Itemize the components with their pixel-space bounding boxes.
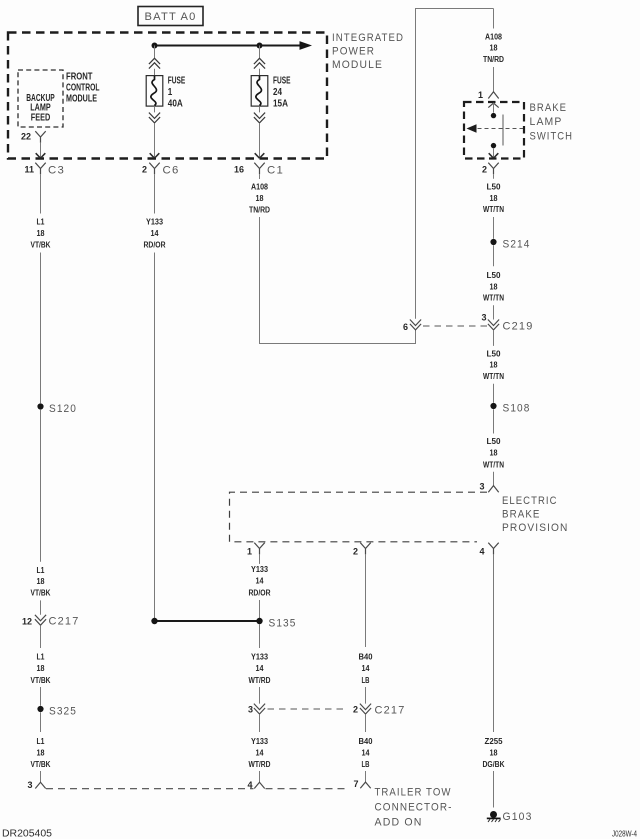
svg-text:L50: L50 [487,349,502,358]
svg-text:TN/RD: TN/RD [483,55,504,64]
svg-text:L1: L1 [37,737,45,746]
svg-text:18: 18 [37,577,45,586]
svg-text:16: 16 [234,165,244,175]
connector C217 pin 2 (right half) [353,704,406,717]
svg-text:2: 2 [353,547,358,557]
svg-text:WT/RD: WT/RD [249,676,271,685]
wire: S135 down [259,624,261,648]
wire: C217 left down [259,714,261,732]
wire label L50 18 WT/TN (block 3) [483,349,504,381]
svg-text:VT/BK: VT/BK [31,589,51,598]
svg-text:B40: B40 [359,652,374,661]
svg-text:Y133: Y133 [251,565,268,574]
svg-text:L50: L50 [487,271,502,280]
svg-text:CONTROL: CONTROL [66,83,100,94]
splice S325 [37,705,77,717]
svg-text:BRAKE: BRAKE [530,102,568,114]
svg-text:12: 12 [22,616,32,626]
wire: down to S214 [493,217,495,239]
svg-text:3: 3 [481,312,486,322]
backup lamp feed box [18,70,63,127]
junction: bus to fuse 24 [257,43,263,49]
connector C6 pin 2 [142,163,180,177]
svg-text:WT/TN: WT/TN [483,372,504,381]
svg-text:18: 18 [37,229,45,238]
wire: down to C217 pin 3 [259,687,261,704]
svg-text:A108: A108 [251,182,268,191]
dashed trailer tow connector line [46,788,347,790]
svg-text:18: 18 [256,194,264,203]
svg-text:FUSE: FUSE [273,76,291,87]
wire: Y133 long run down to S135 [154,253,156,619]
wire: pin 2 down [365,554,367,647]
svg-text:G103: G103 [503,811,533,823]
svg-text:C217: C217 [49,616,80,628]
svg-text:WT/TN: WT/TN [483,460,504,469]
svg-text:6: 6 [403,322,408,332]
svg-text:VT/BK: VT/BK [31,676,51,685]
svg-text:S214: S214 [503,238,531,250]
wire: S120 down [40,410,42,562]
wire label L1 18 VT/BK (mid left) [31,566,51,598]
svg-text:18: 18 [490,44,498,53]
wire label B40 14 LB (above C217) [359,652,374,684]
wire: backup lamp feed to C3 [36,143,46,158]
wire label L1 18 VT/BK (upper left) [31,217,51,249]
svg-text:11: 11 [24,165,34,175]
svg-text:14: 14 [362,664,370,673]
svg-text:CONNECTOR-: CONNECTOR- [375,802,453,814]
svg-text:BRAKE: BRAKE [502,509,541,521]
svg-text:Y133: Y133 [251,737,268,746]
svg-text:L50: L50 [487,437,502,446]
wire label L1 18 VT/BK (lower left) [31,652,51,684]
svg-text:Y133: Y133 [146,217,163,226]
svg-text:Y133: Y133 [251,652,268,661]
svg-text:FEED: FEED [31,112,51,123]
svg-text:4: 4 [479,547,484,557]
svg-text:18: 18 [490,748,498,757]
svg-text:FRONT: FRONT [66,72,93,83]
fuse F1 40A [146,46,185,159]
svg-text:3: 3 [248,705,253,715]
trailer tow connector label [375,787,453,829]
wire: down to S108 [493,384,495,403]
wire: L1 down to S120 [40,253,42,404]
wire: down to S325 [40,687,42,706]
svg-text:2: 2 [482,165,487,175]
wire label Z255 18 DG/BK [483,737,505,769]
svg-text:L1: L1 [37,217,45,226]
wire label L1 18 VT/BK (bottom left) [31,737,51,769]
svg-text:MODULE: MODULE [66,94,97,105]
svg-text:WT/RD: WT/RD [249,760,271,769]
integrated power module label [332,32,404,71]
svg-text:POWER: POWER [332,45,375,57]
svg-text:18: 18 [490,361,498,370]
wire label Y133 14 RD/OR (upper) [144,217,166,249]
svg-text:18: 18 [490,194,498,203]
svg-text:S325: S325 [49,705,77,717]
svg-text:18: 18 [37,664,45,673]
svg-text:B40: B40 [359,737,374,746]
wire label A108 18 TN/RD (below C1) [249,182,270,214]
svg-text:18: 18 [490,449,498,458]
brake lamp switch pin 1 [478,90,499,100]
wire: down to C217 [40,600,42,614]
wire label Y133 14 WT/RD (above C217) [249,652,271,684]
footer sheet number J028W-4 [612,829,637,839]
front control module label [66,72,100,105]
svg-text:LAMP: LAMP [530,116,563,128]
connector C3 pin 11 [24,163,65,177]
connector C217 pin 3 (left half) [248,704,265,715]
wire: A108 down to corner [259,217,261,344]
wire: C6 pin 2 down [154,174,156,213]
wire: S214 down [493,245,495,266]
svg-text:VT/BK: VT/BK [31,240,51,249]
wire: A108 vertical riser [415,9,417,345]
svg-text:14: 14 [256,577,264,586]
svg-text:MODULE: MODULE [332,59,383,71]
svg-text:2: 2 [353,705,358,715]
trailer tow connector pin 3 [27,780,45,790]
svg-text:C3: C3 [48,164,65,176]
wire label Y133 14 RD/OR (below pin 1) [249,565,271,598]
brake lamp switch internals [467,103,524,158]
svg-text:RD/OR: RD/OR [144,240,166,249]
svg-text:J028W-4: J028W-4 [612,829,637,839]
footer plate number DR205405 [2,829,52,839]
svg-text:TRAILER TOW: TRAILER TOW [375,787,452,799]
wire: pin 1 down [259,554,261,564]
svg-text:VT/BK: VT/BK [31,760,51,769]
svg-text:ELECTRIC: ELECTRIC [502,495,558,507]
trailer tow connector pin 7 [353,779,370,789]
svg-text:L1: L1 [37,652,45,661]
splice S214 [490,238,530,250]
svg-text:24: 24 [273,87,282,98]
brake lamp switch pin 2 [482,163,499,175]
integrated power module box [8,33,327,159]
svg-text:2: 2 [142,165,147,175]
svg-text:WT/TN: WT/TN [483,294,504,303]
splice S108 [490,402,530,414]
connector pin 22 (front control module) [21,131,46,143]
splice S120 [37,403,77,415]
svg-text:3: 3 [479,482,484,492]
trailer tow connector pin 4 [247,780,264,790]
svg-text:1: 1 [478,90,483,100]
wire: pin 4 down to Z255 [493,554,495,732]
wire label Y133 14 WT/RD (bottom) [249,737,271,769]
svg-text:15A: 15A [273,99,288,110]
wire: S325 down [40,712,42,732]
svg-text:S108: S108 [503,402,531,414]
svg-text:18: 18 [37,748,45,757]
wire: C1 pin 16 down [259,174,261,179]
svg-text:14: 14 [256,748,264,757]
dashed link to C219 [423,325,487,327]
svg-text:WT/TN: WT/TN [483,205,504,214]
battery feed label BATT A0 [138,7,203,26]
fuse F24 15A [251,46,291,159]
svg-text:14: 14 [362,748,370,757]
wire label B40 14 LB (bottom) [359,737,374,769]
wire: battery bus [155,41,313,50]
ground G103 [487,811,533,823]
svg-text:S135: S135 [269,617,297,629]
svg-text:C1: C1 [267,164,284,176]
wire: down to trailer tow pin 3 [40,771,42,782]
wire: switch pin 2 down [493,174,495,179]
svg-text:40A: 40A [168,99,183,110]
svg-text:C217: C217 [375,705,406,717]
svg-text:LB: LB [362,760,370,769]
svg-text:C6: C6 [163,164,180,176]
svg-text:FUSE: FUSE [168,76,186,87]
connector C219 pin 3 [481,312,533,332]
svg-text:3: 3 [27,780,32,790]
svg-text:DR205405: DR205405 [2,829,52,839]
svg-text:S120: S120 [49,403,77,415]
electric brake provision pin 3 [479,482,498,493]
svg-text:7: 7 [353,779,358,789]
wire: down to C219 [493,305,495,319]
svg-text:18: 18 [490,283,498,292]
brake lamp switch label [530,102,574,142]
wire label L50 18 WT/TN (block 1) [483,182,504,214]
svg-text:C219: C219 [503,321,534,333]
svg-text:LB: LB [362,676,370,685]
connector half 6 (to C219) [403,320,421,333]
wire: down to trailer tow pin 4 [259,771,261,782]
svg-text:L50: L50 [487,182,502,191]
wire: down to electric brake provision pin 3 [493,472,495,485]
junction: bus to fuse 1 [152,43,158,49]
wire label L50 18 WT/TN (block 4) [483,437,504,470]
electric brake provision box [230,492,488,542]
electric brake provision pin 4 [479,543,498,557]
svg-text:L1: L1 [37,566,45,575]
svg-text:1: 1 [247,547,252,557]
wire: down to brake lamp switch [493,9,495,29]
wire label L50 18 WT/TN (block 2) [483,271,504,303]
svg-text:TN/RD: TN/RD [249,205,270,214]
svg-text:DG/BK: DG/BK [483,760,505,769]
wire: S108 down [493,409,495,433]
wire: down to ground [493,771,495,808]
wire: C3 pin 11 down [40,174,42,213]
wire: down to trailer tow pin 7 [365,771,367,782]
svg-text:INTEGRATED: INTEGRATED [332,32,404,44]
svg-text:14: 14 [256,664,264,673]
svg-text:22: 22 [21,132,31,142]
electric brake provision pin 2 [353,543,371,557]
svg-text:A108: A108 [485,32,502,41]
brake lamp switch box [464,102,524,159]
wire: down to S135 [259,600,261,618]
wire: C219 down [493,330,495,346]
wire: A108 horizontal run [259,343,416,345]
svg-text:Z255: Z255 [485,737,504,746]
svg-text:1: 1 [168,87,173,98]
wire: A108 top horizontal [415,8,494,10]
connector C1 pin 16 [234,163,284,177]
svg-text:PROVISION: PROVISION [502,522,569,534]
svg-text:RD/OR: RD/OR [249,588,271,597]
electric brake provision label [502,495,569,534]
wire: label to switch pin 1 [493,67,495,91]
splice S135 crossover [151,617,296,629]
wire: C217 down [40,625,42,648]
wire: C217 right down [365,714,367,732]
connector C217 pin 12 [22,615,80,628]
svg-text:BATT A0: BATT A0 [145,11,197,23]
svg-text:ADD ON: ADD ON [375,817,423,829]
wire label A108 18 TN/RD (above switch) [483,32,504,64]
wire: down to C217 pin 2 [365,687,367,704]
electric brake provision pin 1 [247,543,265,557]
dashed link between C217 halves [268,708,347,710]
svg-text:SWITCH: SWITCH [530,130,574,142]
svg-text:14: 14 [151,229,159,238]
